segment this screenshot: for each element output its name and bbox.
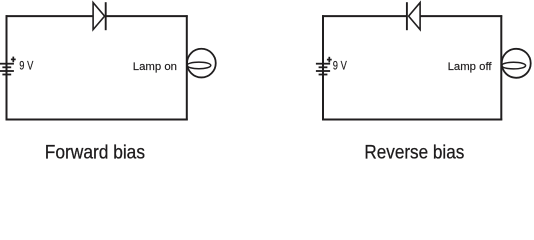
lamp LP1 bulb circle xyxy=(187,49,216,78)
battery B1 plate short upper xyxy=(2,66,11,68)
diode D2 (reverse biased) triangle xyxy=(409,3,421,30)
diode D1 cathode bar xyxy=(105,2,107,30)
diode D2 cathode bar xyxy=(406,2,408,30)
wire: right loop top-left segment xyxy=(322,15,407,17)
svg-text:9 V: 9 V xyxy=(333,59,347,72)
lamp LP1 filament loop xyxy=(187,62,211,69)
wire: right loop top-right segment xyxy=(420,15,502,17)
wire: left loop right side xyxy=(186,15,188,120)
label: Lamp off xyxy=(448,61,493,73)
battery B1 plate short bottom xyxy=(2,74,11,76)
battery B1 plate long lower xyxy=(0,70,14,72)
svg-text:Reverse bias: Reverse bias xyxy=(364,142,464,164)
battery B1 plate long top xyxy=(0,63,14,65)
label: 9 V (right battery) xyxy=(333,59,347,72)
wire: right loop bottom segment xyxy=(322,119,502,121)
svg-text:Forward bias: Forward bias xyxy=(45,142,145,164)
svg-text:9 V: 9 V xyxy=(19,59,33,72)
battery B2 plus sign xyxy=(327,57,332,63)
wire: left loop top-right segment xyxy=(105,15,188,17)
caption: Forward bias xyxy=(45,142,145,164)
battery B1 plus sign xyxy=(11,57,16,63)
svg-text:Lamp on: Lamp on xyxy=(133,61,177,73)
wire: right loop right side xyxy=(500,15,502,120)
label: Lamp on xyxy=(133,61,177,73)
caption: Reverse bias xyxy=(364,142,464,164)
svg-text:Lamp off: Lamp off xyxy=(448,61,493,73)
wire: right loop left side xyxy=(322,15,324,120)
lamp LP2 filament loop xyxy=(502,62,526,69)
wire: left loop bottom segment xyxy=(6,119,188,121)
battery B2 plate long lower xyxy=(316,70,330,72)
label: 9 V (left battery) xyxy=(19,59,33,72)
wire: left loop top-left segment xyxy=(6,15,94,17)
battery B2 plate short bottom xyxy=(319,74,328,76)
battery B2 plate long top xyxy=(316,63,330,65)
lamp LP2 bulb circle xyxy=(502,49,531,78)
diode D1 (forward biased) triangle xyxy=(93,3,105,30)
wire: left loop left side xyxy=(6,15,8,120)
battery B2 plate short upper xyxy=(319,66,328,68)
